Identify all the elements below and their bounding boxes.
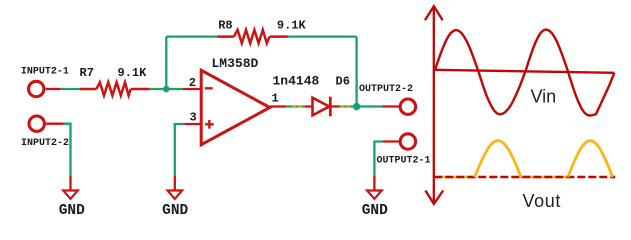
terminal OUTPUT2-1 bbox=[400, 134, 415, 149]
svg-text:GND: GND bbox=[362, 203, 388, 219]
junction node A bbox=[163, 86, 170, 93]
resistor R7 bbox=[80, 82, 150, 95]
resistor R8 bbox=[218, 30, 288, 43]
svg-text:D6: D6 bbox=[336, 75, 350, 89]
pin of port INPUT2-1 bbox=[46, 88, 61, 90]
op-amp plus sign bbox=[205, 120, 214, 129]
Vout hump 1 bbox=[475, 141, 521, 177]
wire junction to OUTPUT2-2 bbox=[357, 105, 383, 107]
svg-text:1n4148: 1n4148 bbox=[273, 74, 320, 89]
wire feedback top right bbox=[288, 35, 357, 37]
svg-text:OUTPUT2-2: OUTPUT2-2 bbox=[359, 84, 413, 95]
svg-text:LM358D: LM358D bbox=[212, 56, 259, 71]
wire INPUT2-2 to GND corner bbox=[64, 124, 71, 176]
svg-text:INPUT2-2: INPUT2-2 bbox=[21, 138, 69, 149]
wire feedback top left bbox=[166, 35, 217, 37]
svg-text:GND: GND bbox=[162, 203, 188, 219]
op-amp pin 2 stub bbox=[183, 88, 201, 90]
svg-text:Vin: Vin bbox=[531, 86, 557, 106]
wire junction to op-amp pin2 bbox=[166, 88, 183, 90]
Vout dashed zero axis bbox=[434, 176, 615, 178]
terminal OUTPUT2-2 bbox=[400, 99, 415, 114]
op-amp pin 3 stub bbox=[185, 123, 202, 125]
svg-text:9.1K: 9.1K bbox=[118, 66, 148, 80]
wire feedback vertical right bbox=[355, 37, 357, 107]
svg-text:R8: R8 bbox=[218, 19, 232, 33]
wire INPUT2-1 to R7 bbox=[61, 88, 80, 90]
terminal INPUT2-1 bbox=[29, 81, 44, 96]
op-amp minus sign bbox=[205, 87, 213, 89]
junction node B bbox=[353, 103, 360, 110]
svg-text:3: 3 bbox=[189, 111, 196, 125]
Vout hump 2 bbox=[568, 141, 613, 177]
Vin sine wave bbox=[435, 30, 614, 116]
ERC marker dashes right of diode bbox=[341, 105, 351, 107]
ERC marker dashes left of diode bbox=[293, 105, 303, 107]
wire OUTPUT2-1 to GND corner bbox=[374, 142, 382, 177]
wire pin3 to GND corner bbox=[175, 124, 185, 176]
svg-text:INPUT2-1: INPUT2-1 bbox=[21, 67, 69, 78]
op-amp pin 1 stub bbox=[270, 105, 287, 107]
wire pin1 to diode bbox=[286, 105, 304, 107]
wire diode to junction bbox=[339, 105, 357, 107]
ground GND3 bbox=[367, 191, 382, 199]
pin of port OUTPUT2-2 bbox=[383, 105, 400, 107]
ground GND3 stub bbox=[373, 176, 375, 191]
op-amp U1 bbox=[201, 70, 270, 144]
diode D6 bbox=[305, 97, 339, 117]
wire R7 to junction bbox=[149, 88, 166, 90]
pin of port INPUT2-2 bbox=[46, 123, 63, 125]
svg-text:OUTPUT2-1: OUTPUT2-1 bbox=[377, 155, 431, 166]
svg-text:GND: GND bbox=[59, 203, 85, 219]
ground GND2 stub bbox=[174, 176, 176, 191]
terminal INPUT2-2 bbox=[29, 116, 44, 131]
Vout zero-level yellow segments bbox=[435, 176, 616, 179]
svg-text:R7: R7 bbox=[80, 66, 94, 80]
wire feedback vertical left bbox=[165, 37, 167, 89]
Vin horizontal axis bbox=[435, 70, 615, 73]
ground GND2 bbox=[168, 191, 183, 199]
pin of port OUTPUT2-1 bbox=[383, 140, 400, 142]
ground GND1 stub bbox=[69, 176, 71, 191]
svg-text:1: 1 bbox=[272, 92, 279, 106]
graph vertical axis double arrow bbox=[425, 6, 443, 204]
svg-text:Vout: Vout bbox=[523, 191, 561, 211]
ground GND1 bbox=[63, 191, 78, 199]
svg-text:9.1K: 9.1K bbox=[277, 19, 307, 33]
